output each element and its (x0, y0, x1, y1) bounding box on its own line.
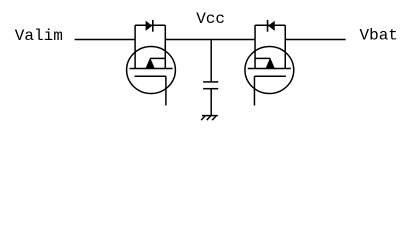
svg-text:Vbat: Vbat (360, 26, 398, 44)
svg-text:Valim: Valim (15, 27, 63, 45)
wire Vcc rail Q1 drain to Q2 drain (165, 39, 255, 41)
body diode D2 of Q2 (255, 20, 285, 32)
svg-text:Vcc: Vcc (196, 10, 225, 28)
capacitor C1 on Vcc (203, 40, 218, 116)
transistor Q1 (left P-MOSFET) (127, 25, 176, 105)
body diode D1 of Q1 (135, 20, 165, 32)
ground symbol (201, 116, 218, 121)
wire Q2 source to Vbat rail (285, 39, 345, 41)
transistor Q2 (right P-MOSFET, mirrored) (245, 25, 294, 105)
wire Valim rail to Q1 source (75, 39, 136, 41)
